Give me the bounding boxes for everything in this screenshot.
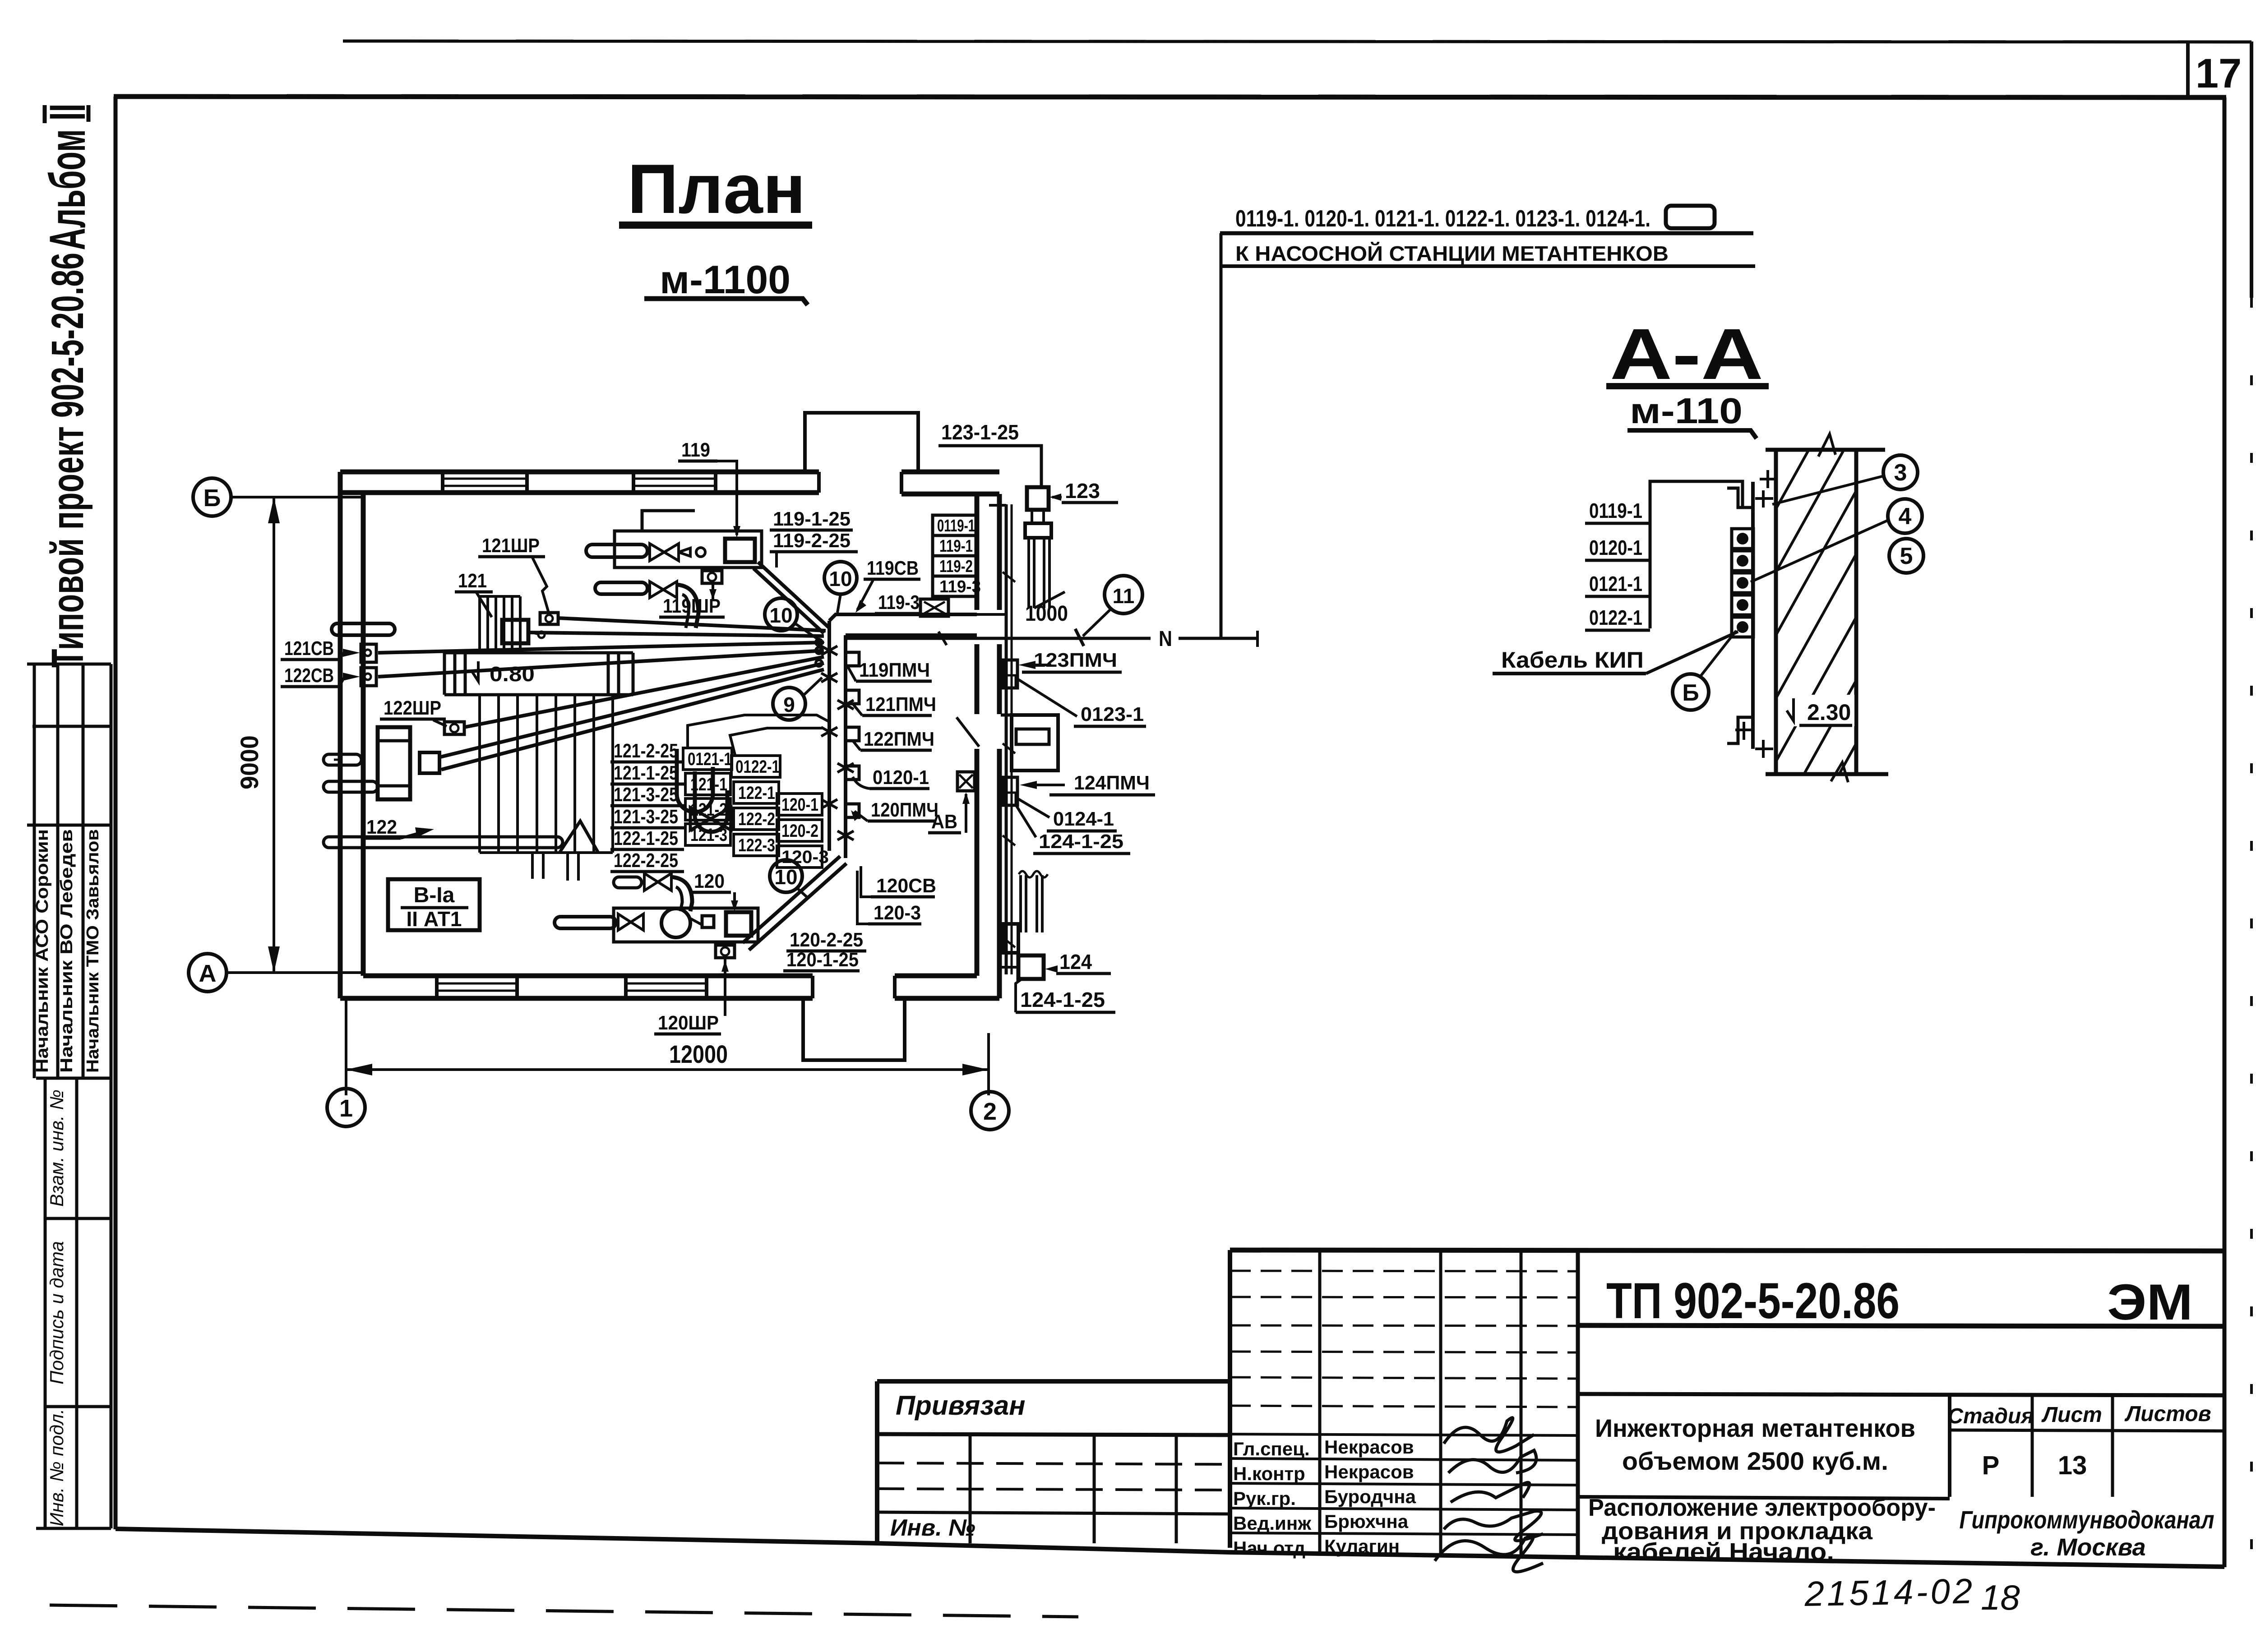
bracket over assembly xyxy=(642,511,695,531)
assembly frame xyxy=(614,908,758,942)
stacked label boxes 0119-1/119-1/119-2/119-3 xyxy=(933,515,978,596)
rounded cable ends at convergence xyxy=(816,639,822,666)
cable strut vertical xyxy=(1751,482,1755,749)
svg-text:120: 120 xyxy=(694,870,725,892)
svg-text:122-2: 122-2 xyxy=(738,809,775,829)
small pipe and valve top xyxy=(614,877,642,888)
svg-text:Брюхчна: Брюхчна xyxy=(1324,1511,1409,1532)
circle 10 bottom xyxy=(770,860,802,892)
svg-text:Начальник ВО Лебедев: Начальник ВО Лебедев xyxy=(57,829,76,1073)
svg-text:123ПМЧ: 123ПМЧ xyxy=(1034,649,1117,671)
break ticks on riser xyxy=(1003,572,1015,947)
svg-text:123-1-25: 123-1-25 xyxy=(941,420,1019,444)
svg-text:119-2-25: 119-2-25 xyxy=(773,530,851,552)
svg-text:Взам. инв. №: Взам. инв. № xyxy=(46,1089,67,1207)
dashed rows top xyxy=(1230,1271,1578,1271)
left sub box (privyazan) xyxy=(877,1379,1230,1384)
middle label column 120-x group xyxy=(781,795,829,867)
svg-text:11: 11 xyxy=(1113,584,1135,608)
svg-text:0122-1: 0122-1 xyxy=(1589,606,1642,629)
bracket lines from label columns to trunk xyxy=(688,715,829,749)
second pipe row xyxy=(595,582,647,594)
svg-text:120-1-25: 120-1-25 xyxy=(786,949,859,971)
hook pipes right of grid xyxy=(677,749,713,812)
middle label column 0122-1 group xyxy=(735,757,780,855)
axis circle A xyxy=(189,954,227,992)
svg-text:Вед.инж: Вед.инж xyxy=(1233,1513,1312,1534)
svg-text:124: 124 xyxy=(1059,950,1092,974)
circle 10 upper-right xyxy=(824,562,857,594)
svg-text:А: А xyxy=(199,960,217,987)
horizontal dimension 12000 xyxy=(346,1068,989,1071)
svg-text:Р: Р xyxy=(1982,1451,2000,1480)
signature squiggles xyxy=(1435,1418,1543,1572)
svg-text:119ПМЧ: 119ПМЧ xyxy=(859,659,930,681)
wall (hatched) xyxy=(1766,449,1888,774)
svg-text:2: 2 xyxy=(983,1098,997,1125)
circle B with leader xyxy=(1673,674,1709,710)
svg-text:10: 10 xyxy=(829,567,852,591)
leader from list down to N line xyxy=(1220,233,1223,638)
trunk double vertical xyxy=(828,621,831,851)
svg-text:120-3: 120-3 xyxy=(874,902,921,924)
cable labels bracket xyxy=(1650,481,1743,628)
svg-text:122: 122 xyxy=(366,816,397,838)
top bracket xyxy=(1727,488,1753,508)
svg-text:1: 1 xyxy=(339,1095,353,1122)
circle 4 xyxy=(1888,499,1922,533)
svg-text:А-А: А-А xyxy=(1610,314,1763,394)
svg-text:0119-1: 0119-1 xyxy=(937,517,975,535)
svg-text:119-2: 119-2 xyxy=(939,557,973,576)
svg-text:0119-1. 0120-1. 0121-1. 0122-1: 0119-1. 0120-1. 0121-1. 0122-1. 0123-1. … xyxy=(1235,206,1650,232)
svg-text:Рук.гр.: Рук.гр. xyxy=(1233,1488,1296,1509)
elbow pipe curving down xyxy=(677,585,698,628)
svg-text:122ШР: 122ШР xyxy=(384,697,441,719)
svg-text:м-1100: м-1100 xyxy=(660,257,791,302)
circle 11 xyxy=(1105,576,1142,614)
cable shelves with dots xyxy=(1732,529,1753,637)
circle 9 xyxy=(773,688,805,720)
svg-text:Некрасов: Некрасов xyxy=(1324,1461,1414,1482)
svg-text:119СВ: 119СВ xyxy=(867,557,919,579)
signature table verticals xyxy=(1318,1250,1322,1555)
box on wall for 124PMCh xyxy=(1003,777,1017,805)
vertical dimension 9000 xyxy=(273,497,275,973)
svg-text:119-1-25: 119-1-25 xyxy=(773,508,851,530)
svg-text:121: 121 xyxy=(458,570,487,592)
small box xyxy=(702,916,714,928)
2.30 mark xyxy=(1787,698,1794,721)
pipe through left wall top xyxy=(332,623,395,635)
funnel to box xyxy=(679,548,690,556)
svg-text:Лист: Лист xyxy=(2041,1403,2102,1427)
svg-text:120-1: 120-1 xyxy=(781,795,818,815)
svg-text:Подпись и дата: Подпись и дата xyxy=(46,1241,67,1384)
svg-text:1000: 1000 xyxy=(1025,602,1068,626)
diagonal duct from pump to trunk xyxy=(758,562,829,628)
svg-text:Инв. № подл.: Инв. № подл. xyxy=(46,1409,67,1527)
bottom bracket xyxy=(1727,717,1753,743)
svg-text:Привязан: Привязан xyxy=(896,1390,1025,1421)
diagonal duct to trunk xyxy=(743,856,840,943)
svg-text:13: 13 xyxy=(2058,1451,2087,1480)
circle 5 xyxy=(1889,539,1923,573)
right wall of hall xyxy=(997,494,1002,610)
bottom annex (porch) xyxy=(803,976,905,1060)
AB box with x xyxy=(957,772,975,791)
120ShR box and leader through wall xyxy=(716,945,735,958)
svg-text:121-1: 121-1 xyxy=(690,775,727,794)
label plates around middle columns xyxy=(683,748,822,868)
svg-text:119-1: 119-1 xyxy=(939,537,973,556)
svg-text:Начальник ТМО Завьялов: Начальник ТМО Завьялов xyxy=(83,829,102,1073)
svg-text:122-1-25: 122-1-25 xyxy=(614,827,678,849)
svg-text:Б: Б xyxy=(1682,680,1699,706)
N line xyxy=(846,637,1151,640)
svg-text:120-2-25: 120-2-25 xyxy=(790,929,863,951)
top thin border line xyxy=(343,41,2251,42)
sheet number box divider xyxy=(2186,42,2190,97)
motor box xyxy=(726,912,751,936)
tank left xyxy=(378,727,410,799)
main frame top xyxy=(114,97,2226,97)
svg-text:0119-1: 0119-1 xyxy=(1589,499,1642,522)
svg-text:м-110: м-110 xyxy=(1630,391,1743,431)
bottom wall window hatches xyxy=(437,983,707,991)
outer right page edge line xyxy=(2250,42,2253,298)
motor box xyxy=(725,539,755,562)
svg-text:17: 17 xyxy=(2196,51,2242,97)
svg-text:121ПМЧ: 121ПМЧ xyxy=(865,693,936,715)
pipes through left wall lower xyxy=(324,754,563,848)
svg-text:ТП 902-5-20.86: ТП 902-5-20.86 xyxy=(1606,1273,1900,1329)
main frame right xyxy=(2223,97,2227,1567)
svg-text:объемом 2500 куб.м.: объемом 2500 куб.м. xyxy=(1622,1447,1888,1475)
svg-text:124-1-25: 124-1-25 xyxy=(1039,831,1123,853)
svg-text:121-3-25: 121-3-25 xyxy=(614,784,678,806)
svg-text:2.30: 2.30 xyxy=(1807,700,1851,725)
wall connection boxes 121SV/122SV xyxy=(361,644,376,662)
valve bowtie xyxy=(650,544,664,561)
svg-text:3: 3 xyxy=(1894,460,1907,486)
left pipe xyxy=(555,917,616,928)
svg-text:В-Iа: В-Iа xyxy=(414,883,455,907)
svg-text:120-2: 120-2 xyxy=(781,821,818,841)
svg-text:Н.контр: Н.контр xyxy=(1233,1463,1305,1484)
svg-text:120СВ: 120СВ xyxy=(876,875,936,897)
signature texts xyxy=(1233,1436,1416,1559)
main frame bottom (skewed scan) xyxy=(116,1529,2224,1567)
svg-text:121-2-25: 121-2-25 xyxy=(614,740,678,762)
svg-text:5: 5 xyxy=(1900,543,1913,569)
svg-text:II АТ1: II АТ1 xyxy=(407,907,462,931)
svg-text:121-3: 121-3 xyxy=(690,825,727,845)
svg-text:120ШР: 120ШР xyxy=(658,1012,719,1034)
box on wall for 123PMCh xyxy=(1003,660,1017,688)
svg-text:122-3: 122-3 xyxy=(738,835,775,855)
svg-text:9: 9 xyxy=(783,693,795,716)
svg-text:9000: 9000 xyxy=(235,735,264,789)
top wall window hatches xyxy=(443,479,716,486)
svg-text:Альбом II: Альбом II xyxy=(39,104,96,250)
119ShR box and label xyxy=(702,571,722,583)
axis line B xyxy=(231,496,364,498)
svg-text:кабелей Начало.: кабелей Начало. xyxy=(1613,1538,1834,1565)
svg-text:Начальник АСО Сорокин: Начальник АСО Сорокин xyxy=(33,829,52,1073)
left pipe xyxy=(586,545,647,557)
svg-text:Нач.отд: Нач.отд xyxy=(1233,1537,1305,1559)
svg-text:121-2: 121-2 xyxy=(690,800,727,820)
top annex (porch) xyxy=(805,413,918,494)
svg-text:121ШР: 121ШР xyxy=(482,535,540,557)
svg-text:0121-1: 0121-1 xyxy=(1589,572,1642,595)
signature rows xyxy=(1230,1434,1578,1435)
svg-text:18: 18 xyxy=(1981,1578,2020,1617)
123 equipment xyxy=(1027,487,1049,510)
valve bowtie lower center xyxy=(690,808,711,830)
svg-text:124ПМЧ: 124ПМЧ xyxy=(1074,772,1150,794)
elbow pipe down to pump xyxy=(671,877,692,911)
svg-text:Буродчна: Буродчна xyxy=(1324,1486,1416,1507)
svg-text:119-3: 119-3 xyxy=(939,577,981,596)
cable riser vertical pair xyxy=(1005,504,1008,974)
wall break marks xyxy=(1818,434,1835,457)
axis line A xyxy=(227,971,364,974)
circle 3 xyxy=(1883,455,1918,489)
main frame left xyxy=(114,97,118,1529)
svg-text:0124-1: 0124-1 xyxy=(1053,808,1114,830)
124 equipment lower xyxy=(1019,875,1022,932)
svg-text:г. Москва: г. Москва xyxy=(2030,1534,2145,1561)
svg-text:ЭМ: ЭМ xyxy=(2107,1274,2193,1330)
svg-text:0123-1: 0123-1 xyxy=(1081,703,1144,725)
svg-text:Гл.спец.: Гл.спец. xyxy=(1233,1438,1310,1459)
outer box xyxy=(1230,1250,2224,1251)
svg-text:К НАСОСНОЙ СТАНЦИИ МЕТАНТЕНКОВ: К НАСОСНОЙ СТАНЦИИ МЕТАНТЕНКОВ xyxy=(1235,242,1669,265)
svg-text:123: 123 xyxy=(1065,479,1100,503)
panel 0123-1 xyxy=(1001,714,1058,717)
svg-text:119: 119 xyxy=(681,439,710,461)
svg-text:0120-1: 0120-1 xyxy=(1589,536,1642,559)
svg-text:Кулагин: Кулагин xyxy=(1324,1536,1400,1557)
svg-text:121-3-25: 121-3-25 xyxy=(614,806,678,828)
svg-text:0122-1: 0122-1 xyxy=(735,757,780,777)
svg-text:122-2-25: 122-2-25 xyxy=(614,849,678,872)
svg-text:Б: Б xyxy=(203,485,221,512)
svg-text:119-3: 119-3 xyxy=(878,591,920,614)
left label column 121-x-25 xyxy=(614,740,678,872)
svg-text:Некрасов: Некрасов xyxy=(1324,1436,1414,1458)
pump circle xyxy=(661,909,690,937)
svg-text:Листов: Листов xyxy=(2124,1402,2211,1426)
svg-text:Расположение электрообору-: Расположение электрообору- xyxy=(1588,1494,1936,1521)
ladder grid lower xyxy=(480,695,613,853)
horizontal run through right wall xyxy=(977,613,1006,616)
fan of cables converging on trunk xyxy=(378,618,826,770)
axis circle 2 xyxy=(971,1092,1009,1130)
svg-text:122СВ: 122СВ xyxy=(284,664,334,687)
leader to 0123-1 xyxy=(1017,679,1077,716)
svg-text:0.80: 0.80 xyxy=(490,662,535,686)
left wall xyxy=(338,472,343,998)
axis circle B xyxy=(193,478,231,516)
svg-text:Инжекторная метантенков: Инжекторная метантенков xyxy=(1595,1414,1915,1442)
extension lines to circles 1 and 2 xyxy=(345,998,347,1095)
trunk top elbow to horizontal run xyxy=(829,614,977,621)
stadия/лист table xyxy=(1948,1394,1951,1497)
svg-text:10: 10 xyxy=(769,604,792,627)
B-Ia / II AT1 box xyxy=(388,879,480,930)
axis circle 1 xyxy=(327,1089,365,1126)
crossing ticks on N line xyxy=(938,632,947,645)
middle label column 0121-1 group xyxy=(688,749,732,845)
assembly frame xyxy=(615,531,762,568)
ladder grid upper (comb) xyxy=(480,596,520,653)
svg-text:0120-1: 0120-1 xyxy=(873,766,929,789)
svg-text:21514-02: 21514-02 xyxy=(1804,1571,1975,1614)
channel band with 0.80 xyxy=(444,653,633,695)
bottom wall xyxy=(340,996,813,1001)
svg-text:121-1-25: 121-1-25 xyxy=(614,762,678,784)
svg-text:Типовой проект 902-5-20.86: Типовой проект 902-5-20.86 xyxy=(42,253,93,668)
bottom page dashed edge xyxy=(50,1605,1078,1617)
svg-text:0121-1: 0121-1 xyxy=(688,749,732,769)
tick marks on trunk xyxy=(821,646,854,840)
svg-text:План: План xyxy=(628,150,806,228)
svg-text:Кабель КИП: Кабель КИП xyxy=(1501,647,1644,673)
svg-text:120ПМЧ: 120ПМЧ xyxy=(871,799,938,821)
top wall outer xyxy=(340,470,819,475)
top wall inner xyxy=(340,490,819,495)
junction boxes on right side of trunk xyxy=(846,652,859,817)
svg-text:122-1: 122-1 xyxy=(738,783,775,803)
svg-text:АВ: АВ xyxy=(931,811,957,833)
circle 10 upper-left xyxy=(765,598,797,631)
valves xyxy=(618,914,631,930)
svg-text:122ПМЧ: 122ПМЧ xyxy=(864,728,934,750)
svg-text:4: 4 xyxy=(1899,503,1912,530)
svg-text:Стадия: Стадия xyxy=(1947,1404,2034,1428)
svg-text:12000: 12000 xyxy=(669,1040,728,1068)
svg-text:Гипрокоммунводоканал: Гипрокоммунводоканал xyxy=(1960,1505,2214,1534)
svg-text:N: N xyxy=(1159,627,1172,651)
vertical pipe pairs below grid xyxy=(532,853,578,881)
stair arrow xyxy=(559,821,598,853)
leaders to 0124-1 and 124-1-25 xyxy=(1017,798,1049,817)
svg-text:Инв. №: Инв. № xyxy=(890,1515,975,1541)
svg-text:124-1-25: 124-1-25 xyxy=(1020,988,1105,1011)
door leaf in right wall xyxy=(957,717,979,747)
svg-text:121СВ: 121СВ xyxy=(284,637,334,660)
